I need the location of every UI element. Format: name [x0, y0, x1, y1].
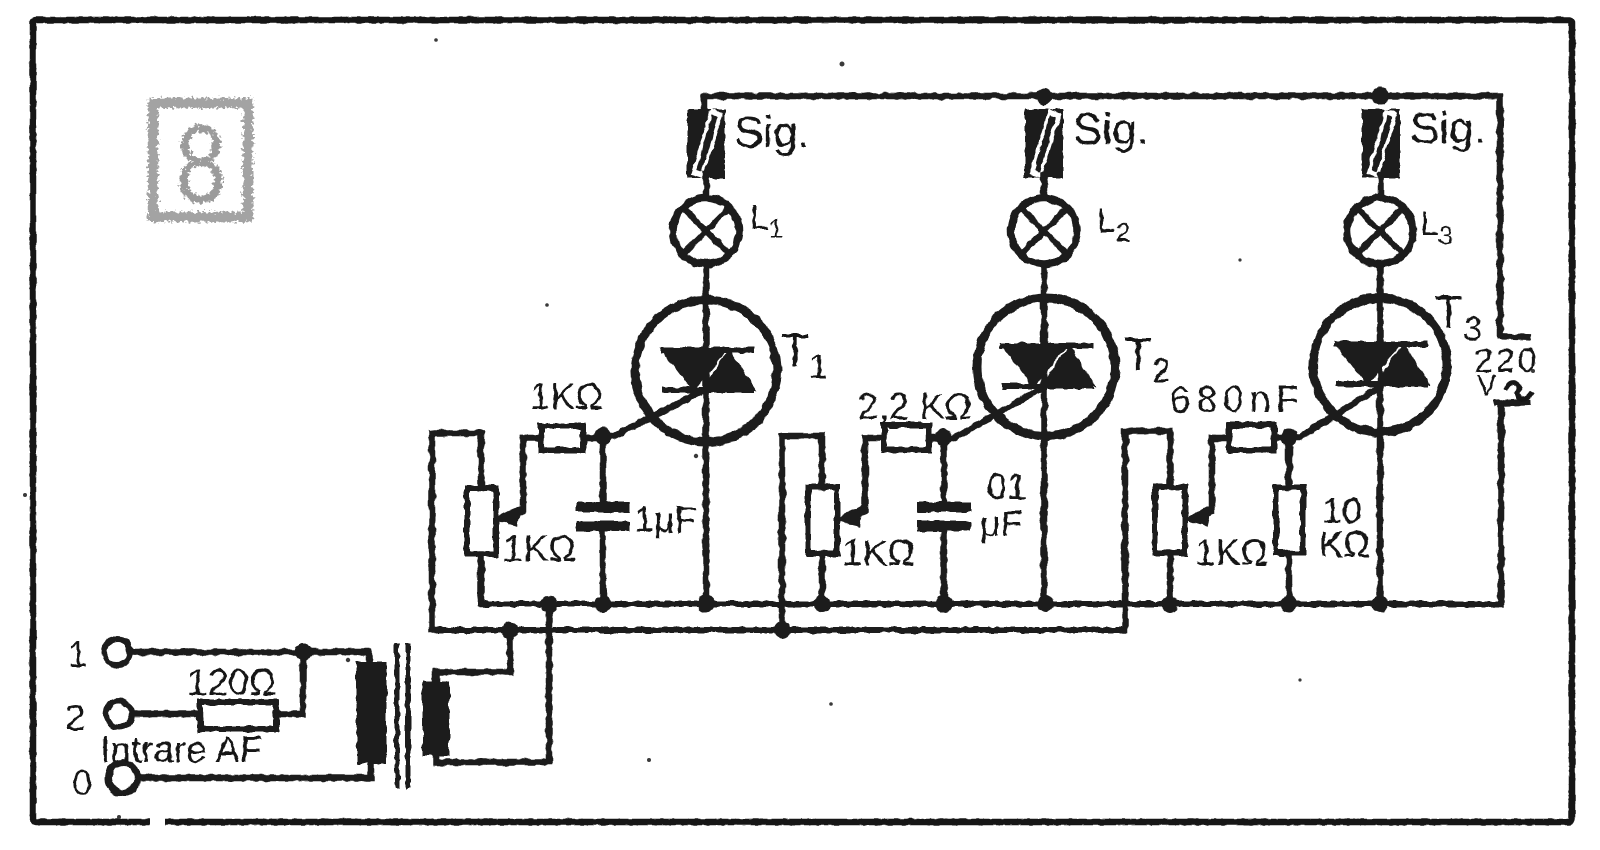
svg-text:Sig.: Sig. [1410, 104, 1486, 153]
220V break stub lower [1497, 402, 1528, 403]
triac T2 [977, 298, 1115, 436]
wire lamp1 to triac1 [703, 264, 710, 604]
input terminal 2 [106, 701, 132, 727]
svg-text:μF: μF [980, 503, 1023, 544]
junction C2 on bus1 [936, 596, 953, 613]
node gate G2 [936, 429, 953, 446]
channel 3 left wire [1125, 431, 1170, 630]
wire fuse1 to lamp1 [703, 175, 710, 198]
junction fuse F2 on top rail [1036, 88, 1053, 105]
secondary top lead to bus2 [436, 630, 510, 683]
node gate G3 [1281, 429, 1298, 446]
triac T3 [1313, 298, 1447, 432]
wire terminal1 [130, 652, 369, 665]
svg-text:T1: T1 [781, 324, 828, 386]
junction secondary-top on bus2 [502, 622, 519, 639]
svg-text:V: V [1477, 370, 1497, 402]
svg-text:120Ω: 120Ω [187, 662, 276, 703]
AC squiggle next to V [1505, 382, 1532, 399]
wire lamp2 to triac2 [1041, 264, 1048, 604]
wire fuse3 to lamp3 [1378, 175, 1385, 198]
lamp L1 [673, 198, 739, 264]
potentiometer P2 body [808, 487, 837, 553]
junction P3 on bus1 [1162, 596, 1179, 613]
capacitor C1 [576, 438, 630, 604]
svg-text:0: 0 [72, 762, 92, 803]
P3 bottom lead [1167, 553, 1174, 604]
gap in bottom border [150, 814, 165, 828]
potentiometer P3 body [1155, 487, 1185, 553]
junction R3 on bus1 [1281, 596, 1298, 613]
svg-text:01: 01 [987, 466, 1027, 507]
C3 leads [1212, 435, 1289, 442]
capacitor C3 680nF box [1229, 425, 1274, 450]
svg-text:1KΩ: 1KΩ [1195, 532, 1268, 573]
node gate G1 [595, 428, 612, 445]
R1 leads [523, 435, 603, 442]
svg-text:1μF: 1μF [634, 499, 697, 540]
wire right side lower [1498, 403, 1505, 604]
svg-text:1KΩ: 1KΩ [842, 532, 915, 573]
wire terminal2 to R120 [132, 711, 200, 718]
svg-text:Sig.: Sig. [734, 108, 810, 157]
P3 wiper [1198, 438, 1212, 517]
R3 leads [1286, 438, 1293, 604]
junction P2 on bus1 [814, 596, 831, 613]
transformer secondary winding [424, 683, 448, 754]
svg-text:680nF: 680nF [1170, 379, 1305, 420]
input terminal 0 [108, 763, 138, 793]
R2 leads [865, 435, 944, 442]
svg-text:Sig.: Sig. [1073, 105, 1149, 154]
gate wire T1 [603, 392, 700, 436]
wire fuse2 to lamp2 [1041, 175, 1048, 198]
junction secondary-bottom on bus1 [541, 596, 558, 613]
wire lamp3 to triac3 [1377, 264, 1384, 604]
junction fuse F3 on top rail [1372, 88, 1389, 105]
svg-text:2,2 KΩ: 2,2 KΩ [858, 386, 972, 427]
bottom bus wire 1 [482, 601, 1500, 607]
gate wire T2 [944, 388, 1042, 438]
junction T2 on bus1 [1038, 596, 1055, 613]
svg-text:8: 8 [176, 104, 226, 226]
secondary bottom lead to bus1 [436, 604, 549, 762]
P2 bottom lead [819, 553, 826, 604]
P1 wiper [508, 438, 523, 517]
channel 1 left wire [432, 433, 481, 630]
junction channel2 left wire on bus2 [774, 622, 791, 639]
resistor 120ohm [200, 702, 276, 729]
gate wire T3 [1289, 388, 1378, 437]
capacitor C2 [917, 438, 971, 604]
triac T1 [635, 300, 777, 442]
top supply rail wire [704, 96, 1500, 333]
svg-text:2: 2 [65, 697, 85, 738]
svg-text:1: 1 [68, 634, 88, 675]
svg-text:1KΩ: 1KΩ [503, 528, 576, 569]
resistor R2 2.2K [884, 425, 929, 450]
channel 2 left wire [782, 436, 822, 630]
fuse F1 [690, 112, 722, 175]
input terminal 1 [104, 639, 130, 665]
bottom bus wire 2 [432, 627, 1125, 633]
junction T3 on bus1 [1372, 596, 1389, 613]
wire terminal0 [137, 762, 371, 778]
junction input terminal wire [295, 644, 312, 661]
lamp L3 [1347, 198, 1413, 264]
220V break stub upper [1500, 336, 1528, 337]
P1 bottom lead [478, 554, 485, 604]
R120 right lead up to wire1 [276, 652, 303, 714]
P2 wiper [850, 438, 865, 517]
resistor R3 10K vertical [1276, 487, 1303, 553]
lamp L2 [1011, 198, 1077, 264]
svg-text:T2: T2 [1124, 328, 1171, 390]
fuse F3 [1365, 112, 1397, 175]
svg-text:L1: L1 [750, 199, 783, 244]
fuse F2 [1028, 112, 1060, 175]
potentiometer P1 body [467, 488, 496, 554]
junction C1 on bus1 [595, 596, 612, 613]
figure number 8 badge [153, 103, 248, 226]
transformer primary winding [358, 663, 385, 762]
junction T1 on bus1 [698, 596, 715, 613]
svg-text:1KΩ: 1KΩ [530, 376, 603, 417]
svg-text:L2: L2 [1097, 202, 1130, 247]
svg-text:L3: L3 [1420, 205, 1453, 250]
svg-text:KΩ: KΩ [1319, 524, 1370, 565]
svg-text:Intrare AF: Intrare AF [100, 729, 262, 770]
resistor R1 1K [541, 426, 583, 450]
transformer core [397, 646, 408, 786]
